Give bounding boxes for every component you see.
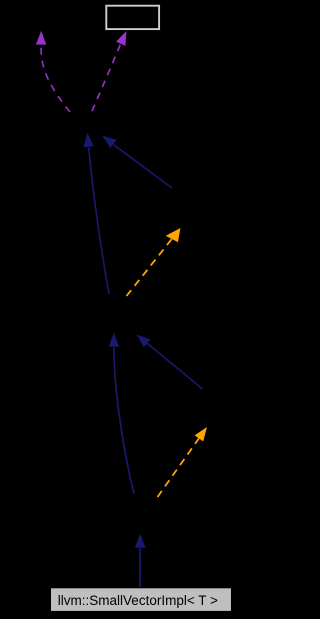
inheritance arrow F (blue, long left, box4 -> box3) — [109, 333, 134, 494]
template-instance arrow B (purple dashed, to top box) — [92, 31, 127, 111]
template arrow E (orange dashed, box3 -> right box R1) — [127, 228, 181, 296]
inheritance arrow D (blue diagonal, right box R1 -> box2) — [102, 136, 172, 188]
svg-text:llvm::SmallVectorImpl< T >: llvm::SmallVectorImpl< T > — [58, 593, 218, 608]
inheritance arrow C (blue, long left, box3 -> box2) — [83, 133, 109, 294]
inheritance arrow I (blue vertical, SmallVectorImpl -> box4) — [135, 534, 146, 587]
inheritance arrow G (blue diagonal, right box R2 -> box3) — [137, 335, 203, 390]
template-instance arrow A (purple dashed, to top-left node) — [36, 31, 70, 112]
node llvm::SmallVectorImpl< T > (current class, grey) — [51, 588, 231, 611]
template arrow H (orange dashed, box4 -> right box R2) — [158, 427, 208, 497]
node top box (light border, instance class) — [106, 6, 159, 29]
